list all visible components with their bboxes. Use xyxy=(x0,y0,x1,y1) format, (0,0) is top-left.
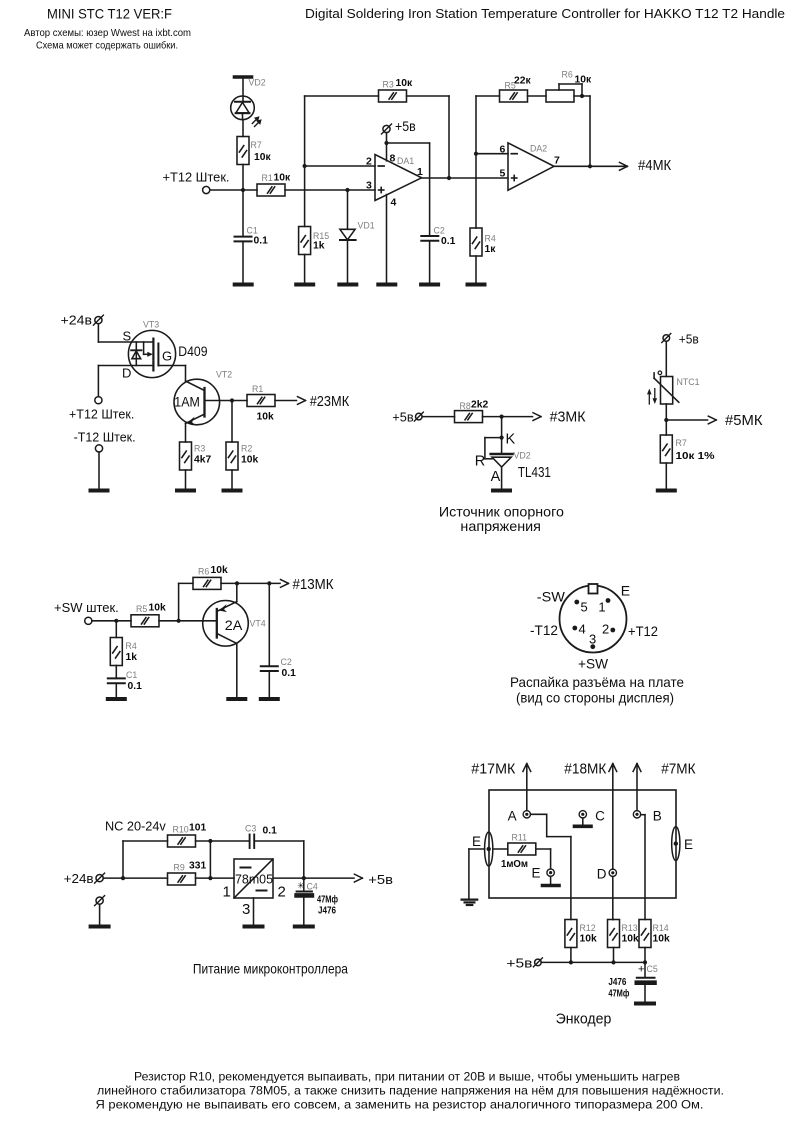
svg-text:NTC1: NTC1 xyxy=(677,377,700,387)
svg-text:1k: 1k xyxy=(313,241,325,252)
svg-text:#3МК: #3МК xyxy=(550,410,586,426)
svg-text:D409: D409 xyxy=(178,343,207,359)
capacitor C4 xyxy=(297,878,312,925)
svg-text:10к: 10к xyxy=(274,173,291,184)
arrow +5v xyxy=(354,874,362,882)
terminal +T12 xyxy=(203,186,210,193)
svg-text:#18МК: #18МК xyxy=(564,762,607,778)
svg-text:R8: R8 xyxy=(460,401,471,411)
wire xyxy=(422,416,454,418)
svg-text:R9: R9 xyxy=(174,863,185,873)
svg-text:10к: 10к xyxy=(396,78,413,89)
svg-text:R6: R6 xyxy=(198,567,209,577)
svg-text:10k: 10k xyxy=(211,565,228,576)
wire S xyxy=(97,324,99,342)
svg-text:VD1: VD1 xyxy=(358,221,375,231)
wire right of R10 xyxy=(196,840,249,842)
svg-text:10к: 10к xyxy=(575,75,592,86)
svg-text:NC 20-24v: NC 20-24v xyxy=(105,819,166,834)
svg-text:R3: R3 xyxy=(194,444,205,454)
wire K xyxy=(501,417,503,454)
wire B to R14 xyxy=(641,815,645,920)
ntc arrows xyxy=(647,389,657,404)
node D xyxy=(609,869,616,919)
node xyxy=(580,94,584,98)
wire xyxy=(209,841,211,878)
svg-text:0.1: 0.1 xyxy=(282,668,297,679)
wire pin3 ground xyxy=(253,898,255,925)
svg-text:+5в: +5в xyxy=(368,872,393,887)
power bar VD2 top xyxy=(235,75,252,79)
svg-text:C: C xyxy=(595,808,605,823)
ground xyxy=(224,489,241,493)
svg-text:+5в: +5в xyxy=(679,332,699,347)
ground xyxy=(261,697,278,701)
svg-text:C4: C4 xyxy=(307,882,318,892)
svg-text:VD2: VD2 xyxy=(249,77,266,87)
capacitor C2 xyxy=(421,236,438,284)
svg-text:VD2: VD2 xyxy=(514,451,531,461)
title top right xyxy=(305,6,785,21)
terminal +5v enc xyxy=(533,958,542,967)
wire to pin3 xyxy=(285,189,375,191)
pin 1 xyxy=(606,598,611,603)
svg-text:R15: R15 xyxy=(313,231,329,241)
connector circle xyxy=(560,586,627,653)
caption connector xyxy=(510,674,684,706)
node C xyxy=(579,811,586,825)
svg-text:1: 1 xyxy=(223,884,231,901)
svg-text:Я рекомендую не выпаивать его: Я рекомендую не выпаивать его совсем, а … xyxy=(96,1098,704,1112)
wire to base xyxy=(159,620,217,622)
svg-text:C5: C5 xyxy=(647,964,658,974)
svg-text:#23МК: #23МК xyxy=(310,394,350,410)
svg-text:+5в: +5в xyxy=(395,118,416,134)
svg-text:10k: 10k xyxy=(149,603,166,614)
svg-text:#13МК: #13МК xyxy=(293,577,335,593)
terminal +24v xyxy=(93,315,103,325)
terminal gnd psu xyxy=(95,896,105,906)
svg-text:DA1: DA1 xyxy=(397,156,414,166)
svg-text:#17МК: #17МК xyxy=(471,762,516,778)
resistor R7 1% xyxy=(660,435,672,489)
svg-text:D: D xyxy=(122,366,131,381)
transistor VT4 xyxy=(203,583,249,697)
svg-text:#7МК: #7МК xyxy=(661,762,696,778)
pin 4 xyxy=(572,626,577,631)
svg-text:J476: J476 xyxy=(608,977,626,988)
svg-text:78m05: 78m05 xyxy=(235,872,273,887)
resistor R14 xyxy=(639,920,651,963)
wire xyxy=(665,341,667,376)
svg-text:2: 2 xyxy=(366,156,372,168)
svg-text:TL431: TL431 xyxy=(518,465,551,481)
svg-text:+SW: +SW xyxy=(578,656,609,672)
svg-text:+Т12 Штек.: +Т12 Штек. xyxy=(69,406,134,421)
wire xyxy=(665,404,667,435)
svg-text:DA2: DA2 xyxy=(530,144,547,154)
thermistor NTC1 xyxy=(654,371,679,404)
svg-text:1к: 1к xyxy=(485,244,497,255)
svg-text:10к 1%: 10к 1% xyxy=(676,451,715,462)
svg-text:R13: R13 xyxy=(622,923,638,933)
op-amp DA2 xyxy=(508,143,554,190)
svg-text:101: 101 xyxy=(189,823,206,834)
arrow #7MK xyxy=(633,764,641,811)
terminal -T12 xyxy=(95,445,102,452)
svg-text:R4: R4 xyxy=(126,641,137,651)
svg-text:+24в: +24в xyxy=(64,871,94,886)
resistor R1 10k xyxy=(232,395,297,407)
svg-text:VT4: VT4 xyxy=(250,619,266,629)
svg-text:✳: ✳ xyxy=(297,880,305,890)
resistor R11 xyxy=(493,843,536,855)
svg-text:VT2: VT2 xyxy=(216,370,232,380)
op-amp DA1 xyxy=(375,155,422,201)
node E inner xyxy=(547,869,554,884)
resistor R15 xyxy=(299,166,311,284)
wire xyxy=(242,120,244,137)
ground xyxy=(339,283,356,287)
svg-text:1мОм: 1мОм xyxy=(501,859,528,870)
svg-text:3: 3 xyxy=(366,180,372,192)
svg-text:Резистор R10, рекомендуется вы: Резистор R10, рекомендуется выпаивать, п… xyxy=(134,1070,680,1084)
svg-text:Распайка разъёма на плате: Распайка разъёма на плате xyxy=(510,674,684,690)
node A xyxy=(523,811,530,818)
connector notch xyxy=(589,584,598,594)
resistor R3 4k7 xyxy=(180,442,192,489)
svg-text:E: E xyxy=(472,834,481,849)
svg-text:R10: R10 xyxy=(173,825,189,835)
svg-text:R: R xyxy=(475,453,485,469)
svg-text:7: 7 xyxy=(554,155,560,167)
svg-text:C2: C2 xyxy=(434,226,445,236)
TL431 VD2 xyxy=(491,454,513,489)
svg-text:10k: 10k xyxy=(241,455,258,466)
node base xyxy=(230,398,234,402)
svg-text:5: 5 xyxy=(581,600,588,615)
LED VD2 xyxy=(231,96,255,120)
bottom note xyxy=(96,1070,725,1112)
trimmer R6 xyxy=(546,84,590,102)
svg-text:R2: R2 xyxy=(241,444,252,454)
svg-text:+T12: +T12 xyxy=(628,623,658,639)
svg-text:C1: C1 xyxy=(247,226,258,236)
svg-text:Питание микроконтроллера: Питание микроконтроллера xyxy=(193,961,348,977)
svg-text:22к: 22к xyxy=(514,76,531,87)
pin 3 xyxy=(590,644,595,649)
arrow #13MK xyxy=(281,580,289,588)
svg-text:+5в: +5в xyxy=(506,955,532,970)
svg-text:E: E xyxy=(532,866,541,881)
resistor R4 xyxy=(470,154,482,284)
ground xyxy=(378,283,395,287)
svg-text:Автор схемы: юзер Wwest на ixb: Автор схемы: юзер Wwest на ixbt.com xyxy=(24,27,191,39)
svg-text:47Мф: 47Мф xyxy=(608,988,629,1000)
svg-text:-T12: -T12 xyxy=(530,622,558,638)
node junction xyxy=(241,188,245,192)
wire E left to earth xyxy=(469,849,485,899)
node xyxy=(345,188,349,192)
pin 2 xyxy=(610,628,615,633)
svg-text:E: E xyxy=(684,837,693,852)
ref loop xyxy=(485,437,502,439)
svg-text:3: 3 xyxy=(589,632,596,647)
svg-text:R11: R11 xyxy=(512,833,528,843)
arrow #18MK xyxy=(609,764,617,870)
svg-text:S: S xyxy=(123,329,132,344)
ground xyxy=(108,697,125,701)
svg-text:Энкодер: Энкодер xyxy=(556,1011,612,1028)
ground xyxy=(493,489,510,493)
ground xyxy=(235,283,252,287)
wire R9 to box xyxy=(196,877,235,879)
svg-text:R1: R1 xyxy=(262,173,273,183)
resistor R5 sw xyxy=(131,615,159,627)
ground xyxy=(658,489,675,493)
svg-text:(вид со стороны дисплея): (вид со стороны дисплея) xyxy=(516,690,674,706)
terminal +5v ref xyxy=(414,412,423,421)
svg-text:R5: R5 xyxy=(136,604,147,614)
svg-text:VT3: VT3 xyxy=(143,320,159,330)
earth symbol xyxy=(462,900,478,905)
capacitor C1 sw xyxy=(108,666,125,698)
svg-text:3: 3 xyxy=(242,901,250,918)
wire xyxy=(210,189,257,191)
svg-text:R7: R7 xyxy=(251,140,262,150)
resistor R12 xyxy=(565,920,577,963)
transistor VT3 mosfet xyxy=(98,330,185,377)
arrow #17MK xyxy=(523,764,531,811)
resistor R7 xyxy=(237,137,249,165)
svg-text:G: G xyxy=(162,348,172,363)
wire pin6 xyxy=(476,153,508,155)
svg-text:0.1: 0.1 xyxy=(254,236,269,247)
svg-text:10k: 10k xyxy=(653,934,670,945)
svg-text:C2: C2 xyxy=(281,657,292,667)
resistor R4 1k xyxy=(110,621,122,666)
ground xyxy=(296,283,313,287)
svg-text:0.1: 0.1 xyxy=(441,236,456,247)
svg-text:B: B xyxy=(653,808,662,823)
svg-text:0.1: 0.1 xyxy=(263,826,278,837)
svg-text:K: K xyxy=(506,431,516,447)
svg-text:-SW: -SW xyxy=(537,589,566,605)
svg-text:MINI STC T12 VER:F: MINI STC T12 VER:F xyxy=(47,6,172,22)
wire xyxy=(242,79,244,102)
resistor R5 xyxy=(500,90,528,102)
svg-text:D: D xyxy=(597,867,607,882)
ground bar C xyxy=(575,824,592,828)
svg-text:4: 4 xyxy=(391,197,397,209)
svg-text:R4: R4 xyxy=(485,234,496,244)
wire xyxy=(92,620,131,622)
svg-text:4: 4 xyxy=(579,622,586,637)
svg-text:2: 2 xyxy=(602,622,609,637)
resistor R10 xyxy=(168,835,196,847)
wire gate to VT2 collector xyxy=(185,366,187,382)
svg-text:R7: R7 xyxy=(676,438,687,448)
resistor R1 xyxy=(257,184,285,196)
svg-text:10k: 10k xyxy=(622,934,639,945)
svg-text:линейного стабилизатора 78М05,: линейного стабилизатора 78М05, а также с… xyxy=(97,1084,724,1098)
svg-text:E: E xyxy=(621,583,630,599)
svg-text:10k: 10k xyxy=(580,934,597,945)
svg-text:R12: R12 xyxy=(580,923,596,933)
resistor R13 xyxy=(608,920,620,963)
terminal +24v psu xyxy=(95,873,105,883)
svg-text:1: 1 xyxy=(598,600,605,615)
ground xyxy=(91,489,108,493)
svg-text:1k: 1k xyxy=(126,652,138,663)
svg-text:+24в: +24в xyxy=(61,313,93,328)
node xyxy=(235,581,239,585)
ground xyxy=(468,283,485,287)
svg-text:5: 5 xyxy=(500,168,506,180)
ground xyxy=(177,489,194,493)
wire +5v rail xyxy=(541,961,645,963)
wire R10 branch xyxy=(122,841,124,878)
wire pin2 xyxy=(305,165,375,167)
svg-text:4k7: 4k7 xyxy=(194,455,211,466)
arrow #5MK xyxy=(666,419,707,421)
wire xyxy=(99,904,101,925)
node B xyxy=(633,811,640,818)
wire pin4 to ground xyxy=(386,195,388,284)
output wire xyxy=(273,877,354,879)
title block left xyxy=(24,6,191,52)
capacitor C2 sw xyxy=(261,583,278,697)
svg-text:331: 331 xyxy=(189,861,206,872)
svg-text:+SW штек.: +SW штек. xyxy=(54,600,119,615)
capacitor C5 xyxy=(637,962,655,1002)
svg-text:6: 6 xyxy=(500,144,506,156)
wire R5 left xyxy=(475,96,477,154)
encoder box xyxy=(489,790,676,898)
svg-text:2A: 2A xyxy=(225,617,243,633)
ground xyxy=(228,697,245,701)
ground xyxy=(91,925,109,929)
ground xyxy=(421,283,438,287)
wire xyxy=(483,416,533,418)
svg-text:1: 1 xyxy=(417,166,423,178)
svg-text:8: 8 xyxy=(390,153,396,165)
ground xyxy=(295,925,313,929)
node pin2 xyxy=(303,164,307,168)
connector labels xyxy=(530,583,658,672)
resistor R9 xyxy=(168,873,196,885)
svg-text:+Т12 Штек.: +Т12 Штек. xyxy=(163,170,230,185)
svg-text:R1: R1 xyxy=(252,384,263,394)
svg-text:Digital Soldering Iron Station: Digital Soldering Iron Station Temperatu… xyxy=(305,6,785,21)
arrow #3MK xyxy=(533,413,541,421)
ground bar E xyxy=(543,884,560,888)
ground xyxy=(636,1002,654,1006)
svg-text:R14: R14 xyxy=(653,923,669,933)
wire xyxy=(407,95,450,97)
node xyxy=(267,581,271,585)
svg-text:A: A xyxy=(491,469,501,485)
caption ref source xyxy=(439,504,564,535)
svg-text:0.1: 0.1 xyxy=(128,681,143,692)
wire R11 to E node xyxy=(536,849,551,869)
svg-text:J476: J476 xyxy=(318,906,336,917)
svg-text:#4МК: #4МК xyxy=(638,158,672,174)
svg-text:2k2: 2k2 xyxy=(471,400,488,411)
svg-text:1AM: 1AM xyxy=(174,393,200,409)
svg-text:R3: R3 xyxy=(383,80,394,90)
wire down to out xyxy=(303,841,305,878)
resistor R8 xyxy=(455,411,483,423)
svg-text:10k: 10k xyxy=(257,412,274,423)
pin 5 xyxy=(574,600,579,605)
output wire DA2 xyxy=(554,165,627,167)
diode VD1 xyxy=(340,190,356,284)
capacitor C1 xyxy=(235,190,252,284)
terminal +SW xyxy=(85,617,92,624)
svg-text:C3: C3 xyxy=(245,824,256,834)
wire A to R12 xyxy=(531,814,571,919)
right E port xyxy=(672,827,680,861)
wire +5v xyxy=(386,133,388,143)
wire xyxy=(103,877,167,879)
left E port xyxy=(485,832,493,866)
ground xyxy=(245,925,263,929)
svg-text:R6: R6 xyxy=(562,70,573,80)
wire xyxy=(528,95,547,97)
feedback wire R3 xyxy=(304,96,306,166)
resistor R6 sw xyxy=(179,577,280,620)
arrow #23MK xyxy=(298,397,306,405)
output wire DA1 xyxy=(422,177,508,179)
LED light arrows xyxy=(252,116,261,126)
terminal +5v ntc xyxy=(662,334,671,343)
svg-text:10к: 10к xyxy=(254,152,271,163)
svg-text:2: 2 xyxy=(278,884,286,901)
terminal +5v xyxy=(382,124,392,134)
wire xyxy=(242,165,244,191)
capacitor C3 xyxy=(250,835,304,849)
resistor R3 xyxy=(379,90,407,102)
node xyxy=(447,176,451,180)
regulator 78m05 xyxy=(234,859,273,898)
svg-text:#5МК: #5МК xyxy=(725,413,763,429)
svg-text:Схема может содержать ошибки.: Схема может содержать ошибки. xyxy=(36,40,178,52)
svg-text:+5в: +5в xyxy=(392,409,413,424)
svg-text:A: A xyxy=(508,808,517,823)
resistor R2 xyxy=(226,401,238,490)
svg-text:напряжения: напряжения xyxy=(460,518,541,534)
svg-text:-Т12 Штек.: -Т12 Штек. xyxy=(74,429,136,444)
svg-text:C1: C1 xyxy=(126,670,137,680)
transistor VT2 xyxy=(174,379,232,442)
terminal +T12 xyxy=(95,397,102,404)
wire xyxy=(98,452,100,489)
wire D to +T12 xyxy=(97,366,99,397)
svg-text:47Мф: 47Мф xyxy=(317,894,338,906)
node pin6 xyxy=(474,152,478,156)
svg-text:+: + xyxy=(638,964,644,976)
arrow #4MK xyxy=(620,162,628,170)
wire down to output xyxy=(589,96,591,166)
